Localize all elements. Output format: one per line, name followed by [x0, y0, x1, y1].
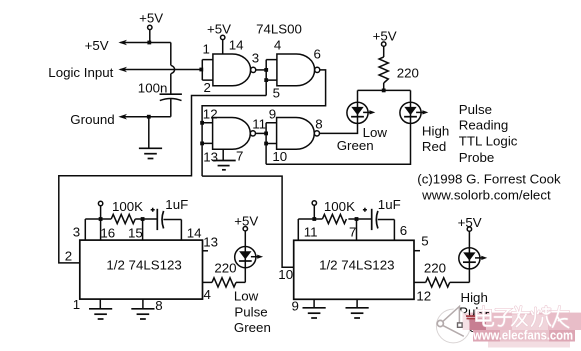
svg-text:+5V: +5V [373, 29, 397, 44]
svg-text:10: 10 [278, 267, 293, 282]
svg-text:4: 4 [204, 287, 211, 302]
svg-text:5: 5 [421, 233, 428, 248]
svg-text:+5V: +5V [458, 215, 482, 230]
svg-text:15: 15 [128, 226, 143, 241]
svg-text:Probe: Probe [459, 150, 494, 165]
svg-text:7: 7 [349, 225, 356, 240]
svg-text:8: 8 [155, 298, 162, 313]
svg-text:1/2 74LS123: 1/2 74LS123 [319, 258, 394, 273]
svg-text:220: 220 [214, 260, 236, 275]
svg-text:Pulse: Pulse [234, 304, 267, 319]
svg-text:14: 14 [229, 38, 244, 53]
svg-text:Low: Low [234, 289, 259, 304]
svg-text:6: 6 [314, 46, 321, 61]
svg-text:6: 6 [400, 223, 407, 238]
svg-text:2: 2 [204, 80, 211, 95]
svg-text:Ground: Ground [70, 112, 114, 127]
svg-text:1: 1 [73, 297, 80, 312]
svg-text:+5V: +5V [85, 38, 109, 53]
svg-text:14: 14 [187, 226, 202, 241]
svg-text:9: 9 [292, 299, 299, 314]
svg-text:+5V: +5V [207, 22, 231, 37]
svg-text:100K: 100K [112, 199, 143, 214]
svg-text:220: 220 [424, 260, 446, 275]
svg-text:100n: 100n [138, 81, 168, 96]
svg-text:9: 9 [269, 106, 276, 121]
svg-text:16: 16 [100, 226, 115, 241]
svg-text:11: 11 [304, 224, 318, 239]
svg-text:100K: 100K [324, 199, 355, 214]
svg-text:Green: Green [337, 138, 374, 153]
svg-text:+5V: +5V [139, 10, 163, 25]
svg-text:4: 4 [274, 38, 281, 53]
svg-text:Pulse: Pulse [459, 102, 492, 117]
svg-text:High: High [461, 290, 488, 305]
svg-text:1/2 74LS123: 1/2 74LS123 [106, 258, 181, 273]
svg-text:3: 3 [252, 51, 259, 66]
svg-text:13: 13 [203, 235, 218, 250]
svg-text:1: 1 [203, 41, 210, 56]
svg-text:5: 5 [273, 85, 280, 100]
svg-text:7: 7 [236, 149, 243, 164]
svg-text:12: 12 [203, 106, 218, 121]
svg-text:Red: Red [422, 139, 446, 154]
svg-text:www.solorb.com/elect: www.solorb.com/elect [421, 187, 551, 202]
svg-text:1uF: 1uF [165, 197, 188, 212]
svg-text:High: High [422, 124, 449, 139]
svg-text:Green: Green [234, 320, 271, 335]
svg-text:220: 220 [397, 65, 419, 80]
svg-text:TTL Logic: TTL Logic [459, 134, 518, 149]
svg-text:10: 10 [272, 149, 287, 164]
svg-text:12: 12 [416, 289, 431, 304]
svg-text:Logic Input: Logic Input [48, 65, 113, 80]
svg-text:3: 3 [73, 224, 80, 239]
svg-text:8: 8 [315, 117, 322, 132]
svg-text:74LS00: 74LS00 [256, 22, 302, 37]
svg-text:13: 13 [203, 149, 218, 164]
svg-text:11: 11 [252, 117, 266, 132]
svg-text:www.elecfans.com: www.elecfans.com [472, 329, 573, 343]
svg-text:(c)1998 G. Forrest Cook: (c)1998 G. Forrest Cook [417, 172, 561, 187]
svg-text:2: 2 [65, 248, 72, 263]
svg-text:1uF: 1uF [378, 197, 401, 212]
svg-text:Reading: Reading [459, 117, 509, 132]
svg-text:+5V: +5V [234, 214, 258, 229]
